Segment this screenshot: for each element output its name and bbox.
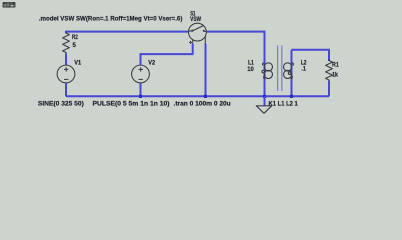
wire R1 to bottom rail — [328, 81, 330, 97]
svg-text:K1 L1 L2 1: K1 L1 L2 1 — [269, 101, 299, 108]
wire switch - control to bottom rail — [205, 44, 207, 97]
svg-text:V1: V1 — [74, 60, 82, 66]
svg-text:PULSE(0 5 5m 1n 1n 10): PULSE(0 5 5m 1n 1n 10) — [93, 100, 170, 107]
wire V2 to bottom rail — [140, 83, 142, 96]
wire L2 top to R1 — [292, 50, 330, 61]
transformer core — [277, 46, 279, 92]
resistor R1 — [326, 59, 333, 82]
wire V2 top to switch + control — [141, 44, 193, 66]
inductor L1 — [262, 63, 273, 79]
wire top rail right (switch to L1 top corner) — [206, 32, 265, 62]
inductor L2 — [284, 63, 294, 79]
svg-text:R2: R2 — [72, 35, 78, 41]
svg-text:L1: L1 — [248, 61, 254, 67]
junction V2 — [139, 95, 142, 98]
svg-text:.model VSW SW(Ron=.1 Roff=1Meg: .model VSW SW(Ron=.1 Roff=1Meg Vt=0 Vser… — [39, 15, 183, 22]
switch S1 — [189, 23, 207, 44]
wire L2 (secondary) vertical — [291, 50, 293, 97]
svg-text:1k: 1k — [332, 72, 338, 78]
wire L1 (primary) vertical — [264, 60, 266, 96]
junction switch control — [204, 95, 207, 98]
svg-text:VSW: VSW — [190, 16, 201, 23]
wire top rail left (R2 corner to switch) — [66, 31, 189, 33]
corner artifact blob — [3, 2, 16, 8]
svg-text:.tran 0 100m 0 20u: .tran 0 100m 0 20u — [174, 101, 231, 108]
bottom rail wire — [66, 95, 329, 97]
svg-text:10: 10 — [247, 67, 254, 73]
svg-text:.1: .1 — [301, 66, 306, 72]
wire V1 to bottom rail — [65, 83, 67, 96]
junction L1 bottom — [263, 95, 266, 98]
wire R2 top stub — [65, 31, 67, 34]
voltage source V1 — [57, 65, 75, 83]
svg-text:V2: V2 — [148, 60, 156, 66]
ground — [264, 96, 266, 106]
svg-text:R1: R1 — [332, 63, 339, 69]
svg-text:SINE(0 325 50): SINE(0 325 50) — [38, 100, 84, 107]
wire R2 to V1 — [65, 54, 67, 66]
junction L2 bottom — [290, 95, 293, 98]
resistor R2 — [63, 32, 70, 55]
voltage source V2 — [132, 65, 150, 83]
